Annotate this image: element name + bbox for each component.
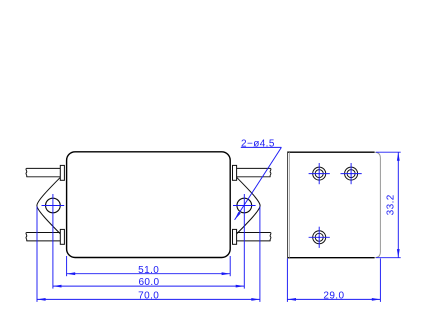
terminal lead bottom-left xyxy=(26,233,61,241)
terminal bushing bottom-right xyxy=(233,229,237,244)
extension line 29.0 right xyxy=(379,258,381,302)
dimension line 60.0 xyxy=(53,285,244,287)
left mounting flange xyxy=(37,177,61,234)
extension line 51.0 left xyxy=(66,256,68,276)
side hole bottom-left xyxy=(313,231,326,244)
terminal lead top-right xyxy=(237,168,271,176)
extension line 60.0 right / hole centerline xyxy=(243,194,245,289)
terminal bushing bottom-left xyxy=(60,229,64,244)
svg-text:29.0: 29.0 xyxy=(323,290,344,301)
side plate top edge xyxy=(287,151,374,153)
filter body (front view) xyxy=(67,152,231,258)
leader line to right flange hole xyxy=(235,147,282,220)
extension line 33.2 top xyxy=(376,151,401,153)
left flange hole xyxy=(46,198,61,213)
left hole crosshair xyxy=(42,205,65,207)
extension line 70.0 left xyxy=(36,207,38,302)
dimension line 33.2 xyxy=(397,152,399,258)
svg-text:60.0: 60.0 xyxy=(138,277,159,288)
side plate left edge inner xyxy=(288,152,290,258)
svg-text:33.2: 33.2 xyxy=(386,194,397,215)
right mounting flange xyxy=(237,177,261,234)
right hole crosshair xyxy=(233,205,256,207)
right flange hole xyxy=(237,198,252,213)
side plate right edge with rounded corners xyxy=(375,152,381,258)
terminal bushing top-right xyxy=(233,165,237,180)
terminal bushing top-left xyxy=(60,165,64,180)
svg-text:70.0: 70.0 xyxy=(138,290,159,301)
dimension line 70.0 xyxy=(37,298,260,300)
terminal lead top-left xyxy=(26,168,61,176)
extension line 60.0 left / hole centerline xyxy=(52,194,54,289)
side plate bottom edge xyxy=(287,257,374,259)
leader underline xyxy=(241,146,282,148)
svg-text:51.0: 51.0 xyxy=(138,265,159,276)
dimension line 51.0 xyxy=(67,273,231,275)
side hole top-right xyxy=(345,167,358,180)
side plate left edge outer xyxy=(287,152,289,258)
extension line 51.0 right xyxy=(229,256,231,276)
extension line 29.0 left xyxy=(286,258,288,302)
side hole top-left xyxy=(313,167,326,180)
extension line 33.2 bottom xyxy=(376,257,401,259)
dimension line 29.0 xyxy=(287,298,380,300)
terminal lead bottom-right xyxy=(237,233,271,241)
extension line 70.0 right xyxy=(259,207,261,302)
